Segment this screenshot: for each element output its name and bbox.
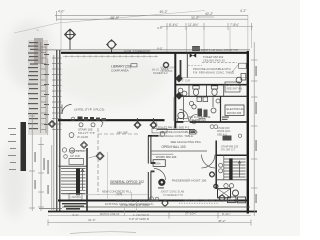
svg-text:9'-1¾": 9'-1¾": [222, 212, 230, 216]
storefront sill line with mullion ticks: [63, 55, 158, 57]
box at start of text band: [152, 128, 167, 133]
hall soffit line: [150, 150, 207, 152]
column bubble on south wall: [162, 200, 169, 207]
left vertical dimension line outer: [29, 113, 35, 211]
svg-text:ALUM. STOREFRONT: ALUM. STOREFRONT: [124, 49, 151, 53]
counter partition: [183, 96, 185, 120]
vestibule partition: [186, 52, 188, 78]
supply room label box: [225, 82, 240, 92]
stall partition 1: [188, 85, 190, 97]
column marker diamond office: [96, 152, 104, 160]
stall partition 2: [206, 85, 208, 97]
svg-text:UP ABOVE: UP ABOVE: [190, 118, 204, 122]
small bubbles near wall bottom: [150, 197, 154, 201]
stair center rail dark: [76, 168, 80, 195]
stair east up arrow: [238, 161, 240, 178]
interior wall mid horizontal: [58, 119, 165, 121]
bottom faint scan arc: [70, 232, 136, 234]
scan smudge top-left: [14, 11, 205, 34]
scan mottling patches: [1, 21, 225, 231]
svg-text:45'-2": 45'-2": [160, 10, 168, 14]
dimension line top-right row 2 segmented: [160, 23, 253, 30]
column bubble at stair south: [219, 195, 226, 202]
rotated dim text right: [256, 66, 257, 203]
svg-text:27'-10¾": 27'-10¾": [185, 212, 197, 216]
svg-text:ROOF ACC: ROOF ACC: [217, 129, 231, 133]
circled keynote lower: [69, 148, 74, 153]
dotted curb line: [179, 202, 219, 204]
west exterior wall lines: [48, 50, 60, 212]
dimension line top 48'-0": [55, 11, 248, 21]
svg-text:UP 16R: UP 16R: [70, 154, 80, 158]
svg-text:4'-2": 4'-2": [240, 9, 246, 13]
svg-text:SEE DETAIL: SEE DETAIL: [70, 149, 85, 153]
bottom right roof below boxes: [228, 197, 237, 203]
elevator X diagonals: [218, 189, 231, 198]
keynote circle showroom 1: [79, 123, 83, 127]
svg-text:WORK RM 104: WORK RM 104: [156, 155, 177, 159]
elec room west wall: [220, 96, 222, 122]
stair bottom landing label box: [69, 194, 82, 200]
north exterior wall: [61, 52, 249, 54]
bottom dimension line row1: [48, 213, 251, 219]
svg-text:TOILET RM 201 SEE P-2: TOILET RM 201 SEE P-2: [158, 126, 190, 130]
furring chase dark bar: [180, 60, 182, 77]
west storefront dimension ladder: [41, 42, 46, 133]
ceiling dash line: [202, 62, 237, 64]
door jamb dark marks: [151, 162, 156, 164]
water heater dark circle: [158, 179, 165, 186]
south wall outer: [48, 211, 257, 213]
column bubble right of hoist label: [209, 172, 214, 177]
svg-text:TO REMAIN TYP: TO REMAIN TYP: [163, 193, 183, 197]
svg-text:PASSENGER HOIST 106: PASSENGER HOIST 106: [172, 178, 207, 182]
lavatory circles west: [178, 88, 187, 96]
svg-text:9'-0": 9'-0": [73, 213, 79, 217]
small circle keynote: [192, 120, 196, 124]
svg-text:SEE SHT A-6: SEE SHT A-6: [227, 87, 243, 91]
hall west wall lower: [147, 172, 149, 200]
leader to east box: [232, 64, 239, 72]
toilet 1: [193, 86, 199, 96]
svg-text:OPEN HALL 103: OPEN HALL 103: [162, 145, 186, 149]
room divider east of shaft: [107, 152, 109, 200]
svg-text:DN 16R 11T: DN 16R 11T: [221, 147, 236, 151]
column marker bubble A top-left: [65, 29, 76, 50]
svg-text:CEILING PKG 30: CEILING PKG 30: [203, 58, 225, 62]
east wall note box: [239, 63, 247, 68]
label box above wall: [193, 46, 200, 51]
west wall mullion ticks: [52, 58, 62, 130]
extension tick at x124: [124, 207, 126, 216]
door west with swing arc: [62, 105, 72, 115]
thin chair rail line: [176, 77, 247, 79]
svg-text:8'-4¾": 8'-4¾": [169, 23, 178, 27]
title underline bar: [157, 128, 195, 131]
bubbles below stair: [224, 184, 228, 188]
svg-text:105A: 105A: [155, 162, 161, 166]
keynote circle showroom 2: [91, 123, 95, 127]
electrical room label box: [225, 105, 244, 116]
keynote circle at stub wall: [160, 132, 165, 137]
dimension line top-right row 1: [196, 16, 214, 18]
corridor stub wall: [148, 135, 159, 137]
AB construction joint dashed line: [98, 133, 140, 135]
svg-text:STAIR 203: STAIR 203: [217, 126, 230, 130]
left margin dark fold bar: [21, 122, 27, 171]
office label underline: [110, 183, 141, 186]
small marks below heater: [158, 187, 164, 188]
east exterior wall: [247, 51, 249, 214]
svg-text:AB LINE: AB LINE: [117, 131, 128, 135]
dark marks right of note: [223, 136, 232, 141]
panel dashes in elec room: [222, 117, 229, 120]
svg-text:LINTEL (TYP. 3 PLCS): LINTEL (TYP. 3 PLCS): [74, 108, 104, 112]
elevator shaft box: [218, 189, 231, 198]
svg-text:ROOM 205: ROOM 205: [227, 111, 242, 115]
circled keynote at shaft top: [62, 148, 66, 152]
column marker bubble B: [107, 40, 117, 53]
svg-text:6'-8" AT GRID B: 6'-8" AT GRID B: [129, 217, 149, 221]
sidewalk edge line: [62, 194, 148, 196]
stair shaft east wall: [86, 148, 88, 211]
stall partition 3: [223, 85, 225, 97]
left vertical dimension line inner: [38, 137, 52, 211]
small circle keynote at landing: [64, 155, 68, 159]
leader vertical from diamond: [156, 121, 158, 131]
leader from diamond to shaft: [89, 156, 97, 158]
thin line above stair entry: [70, 150, 88, 152]
AB grid dashed vertical: [97, 128, 99, 195]
keynote text stack left of ladder: [28, 42, 49, 129]
extension tick x136: [136, 201, 138, 213]
stair upper landing box: [69, 159, 84, 165]
stair treads: [61, 169, 86, 194]
svg-text:EXIST 1-HR WALL CONST TYP: EXIST 1-HR WALL CONST TYP: [201, 48, 239, 52]
small closet box: [153, 160, 165, 167]
svg-text:40'-2": 40'-2": [205, 12, 213, 16]
bubbles inside stair west: [219, 163, 223, 167]
light vertical above corridor door: [173, 97, 175, 121]
column marker in showroom: [163, 62, 169, 68]
svg-text:NEW CONC. CURB AND GUTTER TYP.: NEW CONC. CURB AND GUTTER TYP.: [184, 199, 235, 203]
small box right: [199, 118, 205, 122]
svg-text:FIX PER ADAAG CONC. TABLE: FIX PER ADAAG CONC. TABLE: [153, 134, 194, 138]
hall double door arcs: [202, 155, 216, 169]
restroom door arcs: [180, 110, 198, 122]
scan smear cluster left ladder top: [34, 38, 43, 64]
small dark box in text band: [190, 130, 197, 134]
flight divider vertical: [223, 155, 225, 179]
door arc hall west: [154, 169, 166, 181]
circle fixture east wall: [236, 77, 242, 83]
dark plumbing chase: [198, 109, 203, 117]
hoist machine circle: [233, 190, 239, 196]
leader to wall: [131, 193, 133, 200]
dark column diamond upper: [175, 75, 183, 83]
dark door hardware squares: [71, 117, 75, 121]
svg-text:4'-0": 4'-0": [157, 26, 163, 30]
small rect beside label: [131, 64, 137, 67]
column diamonds below mid wall: [134, 118, 141, 129]
circled keynote near stair label: [69, 133, 74, 138]
svg-text:FIX. PER ADAAG CONC. TABLE: FIX. PER ADAAG CONC. TABLE: [193, 70, 234, 74]
column marker diamond west wall: [49, 121, 56, 128]
right vertical dimension line: [251, 42, 258, 216]
svg-text:SEE A4/LIGHTING PKG: SEE A4/LIGHTING PKG: [171, 140, 201, 144]
svg-text:30'-2": 30'-2": [191, 16, 199, 20]
svg-text:EXISTING CONC. WALK (SIDEWALK): EXISTING CONC. WALK (SIDEWALK): [105, 202, 154, 206]
svg-text:COMP.AREA: COMP.AREA: [111, 69, 129, 73]
roof/canopy thin line above north wall: [34, 49, 250, 51]
box above text band: [178, 118, 189, 121]
south wall inner: [58, 200, 248, 202]
lavatory circle near door: [178, 112, 184, 118]
landing line: [216, 179, 246, 181]
partition mid: [212, 96, 214, 107]
south canopy line: [62, 206, 250, 208]
canopy line left stub: [39, 208, 62, 210]
keynote circle: [216, 99, 220, 103]
svg-text:11'-8¾": 11'-8¾": [188, 23, 199, 27]
urinal screens: [197, 97, 208, 102]
svg-text:W 14x30: W 14x30: [77, 135, 88, 139]
restroom south wall segments: [176, 121, 247, 123]
showroom east wall (restroom block west wall): [174, 52, 176, 129]
hall west wall upper: [147, 136, 149, 164]
stair shaft top wall: [59, 165, 88, 167]
svg-text:SPLY RM 204: SPLY RM 204: [227, 83, 244, 87]
stair east treads: [224, 159, 246, 177]
column bubble 2 lower: [214, 184, 218, 188]
bottom dimension line row2: [48, 220, 251, 226]
lavatory circles lower: [189, 101, 216, 113]
rotated dim text left: [35, 152, 49, 194]
svg-text:48'-0": 48'-0": [110, 16, 120, 20]
rect fixture east wall: [241, 74, 246, 81]
svg-text:LANDING: LANDING: [71, 196, 82, 199]
svg-text:GENERAL OFFICE 102: GENERAL OFFICE 102: [110, 180, 144, 184]
column marker diamond mid-left: [81, 142, 88, 149]
ceiling dash short: [188, 65, 202, 67]
extension lines from top dims down to wall: [61, 12, 252, 52]
svg-text:6'-8": 6'-8": [118, 191, 123, 195]
stair east center rail: [229, 158, 232, 180]
svg-text:EXIST CONC SLAB: EXIST CONC SLAB: [161, 190, 184, 194]
restroom mid wall: [176, 95, 247, 97]
dark column diamond lower: [175, 92, 183, 100]
hall soffit line 2: [150, 153, 173, 155]
keynote bubbles in text band: [210, 125, 214, 129]
stair up arrow: [81, 169, 83, 190]
svg-text:4'-0": 4'-0": [157, 47, 163, 51]
stair bottom dark cluster: [62, 203, 86, 210]
toilet 2: [211, 86, 217, 96]
svg-text:6. CENTER B: 6. CENTER B: [133, 213, 149, 217]
svg-text:45'-2": 45'-2": [218, 219, 226, 223]
stair east shaft walls: [216, 141, 246, 190]
svg-text:SCHED 6-2: SCHED 6-2: [153, 71, 168, 75]
svg-text:31'-0": 31'-0": [88, 218, 96, 222]
roof hatch X marker: [190, 53, 197, 57]
restroom north wall: [176, 84, 247, 86]
svg-text:7'-8¾": 7'-8¾": [230, 23, 239, 27]
tiny marks left of fold bar: [8, 128, 16, 170]
